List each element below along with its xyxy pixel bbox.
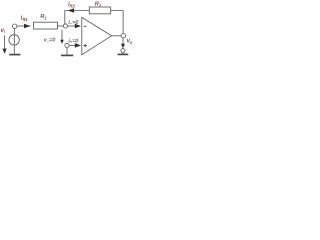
svg-text:i− = 0: i− = 0	[68, 20, 78, 26]
vi arrow head	[3, 49, 7, 54]
current arrow i- head	[75, 24, 81, 29]
output ground terminal stem	[122, 53, 124, 55]
wire R1 to inverting node	[58, 25, 64, 27]
v- arrow head	[60, 40, 64, 44]
output ground terminal circle	[121, 49, 125, 53]
current arrow i_R1 head	[24, 24, 30, 29]
svg-text:R1: R1	[40, 14, 47, 20]
wire plus node to op-amp plus input	[69, 44, 79, 46]
svg-text:vo: vo	[127, 39, 133, 45]
resistor R2	[89, 7, 110, 14]
svg-text:v− = 0: v− = 0	[44, 38, 55, 44]
svg-text:i+ = 0: i+ = 0	[68, 39, 78, 45]
feedback wire right of R2 down to output node	[111, 11, 123, 34]
output terminal node circle	[121, 34, 125, 38]
voltage source Vi vertical lead through symbol	[13, 29, 15, 55]
svg-text:vi: vi	[1, 28, 6, 34]
voltage source Vi circle	[9, 35, 19, 45]
svg-text:iR2: iR2	[68, 2, 75, 8]
ground bar (source)	[9, 54, 20, 56]
svg-text:iR1: iR1	[21, 16, 28, 22]
input terminal node circle	[13, 24, 17, 28]
feedback wire up from node	[65, 11, 90, 25]
v- voltage arrow stem	[61, 30, 63, 41]
ground bar (output)	[118, 53, 129, 55]
wire inverting node to op-amp minus input	[67, 25, 79, 27]
vo arrow head	[121, 44, 125, 48]
current arrow i_R2 head (points left)	[68, 8, 74, 13]
output wire from op-amp apex	[112, 35, 122, 37]
ground bar (plus input)	[61, 54, 73, 56]
vo arrow stem	[122, 38, 124, 45]
resistor R1	[34, 22, 58, 29]
op-amp minus sign	[84, 25, 86, 27]
svg-text:R2: R2	[95, 2, 102, 8]
op-amp plus sign	[84, 45, 87, 47]
non-inverting input node circle	[65, 43, 69, 47]
inverting input node circle	[63, 24, 67, 28]
current arrow i+ head	[75, 43, 81, 48]
op-amp U1 triangle	[82, 17, 112, 54]
vi voltage arrow stem	[4, 35, 6, 50]
ground stem under plus node	[66, 48, 68, 56]
wire source top to R1	[17, 25, 31, 27]
